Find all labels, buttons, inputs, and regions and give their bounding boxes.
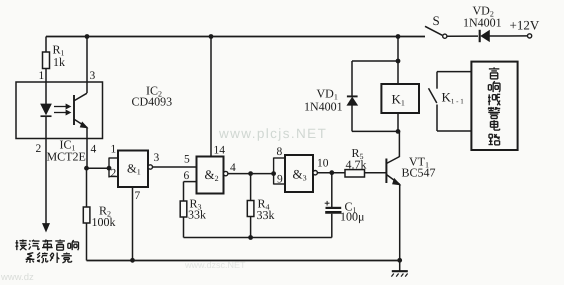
svg-text:33k: 33k <box>188 208 206 222</box>
svg-text:10: 10 <box>317 158 329 170</box>
svg-text:14: 14 <box>214 145 226 157</box>
svg-text:4: 4 <box>230 162 236 174</box>
svg-text:&1: &1 <box>127 162 141 177</box>
svg-text:9: 9 <box>277 174 283 186</box>
svg-text:www.dzsc.NET: www.dzsc.NET <box>184 260 246 270</box>
svg-text:CD4093: CD4093 <box>132 95 173 109</box>
svg-text:BC547: BC547 <box>402 166 436 180</box>
svg-text:5: 5 <box>184 154 190 166</box>
svg-text:2: 2 <box>111 168 117 180</box>
svg-text:7: 7 <box>135 190 141 202</box>
svg-text:8: 8 <box>277 146 283 158</box>
svg-text:2: 2 <box>36 143 42 155</box>
svg-text:+12V: +12V <box>510 18 540 33</box>
svg-text:&2: &2 <box>205 167 219 183</box>
svg-text:MCT2E: MCT2E <box>47 150 86 164</box>
svg-text:3: 3 <box>90 70 96 82</box>
svg-text:1N4001: 1N4001 <box>463 16 502 30</box>
svg-text:100k: 100k <box>92 215 116 229</box>
svg-text:www.plcjs.NET: www.plcjs.NET <box>218 126 327 141</box>
svg-text:S: S <box>433 13 440 28</box>
svg-text:1: 1 <box>39 70 45 82</box>
svg-text:1: 1 <box>111 144 117 156</box>
svg-text:3: 3 <box>154 152 160 164</box>
svg-text:&3: &3 <box>293 167 307 183</box>
svg-text:K1 - 1: K1 - 1 <box>442 90 465 106</box>
svg-text:1N4001: 1N4001 <box>304 100 343 114</box>
svg-text:100μ: 100μ <box>340 210 364 224</box>
svg-text:www.dz: www.dz <box>0 272 34 283</box>
svg-text:4.7k: 4.7k <box>346 158 367 172</box>
svg-text:6: 6 <box>184 170 190 182</box>
svg-text:K1: K1 <box>392 92 405 108</box>
svg-text:4: 4 <box>91 144 97 156</box>
svg-text:33k: 33k <box>257 208 275 222</box>
svg-text:1k: 1k <box>53 55 65 69</box>
